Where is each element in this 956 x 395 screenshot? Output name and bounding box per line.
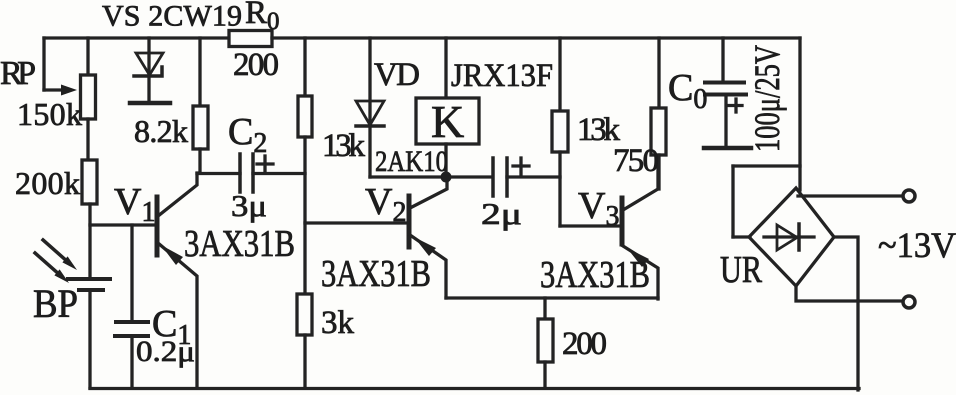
wire bridge bottom to terminal 2: [796, 286, 902, 301]
potentiometer RP wiper arrow: [44, 88, 63, 91]
capacitor C1: [130, 225, 133, 320]
svg-text:UR: UR: [720, 249, 763, 291]
svg-text:2μ: 2μ: [481, 196, 522, 231]
wire left edge drop to RP wiper: [42, 38, 45, 90]
wire top rail left segment: [44, 36, 229, 39]
svg-text:R0: R0: [245, 0, 280, 35]
terminal 1: [903, 190, 915, 202]
svg-text:3AX31B: 3AX31B: [321, 253, 431, 295]
transducer BP plates: [68, 277, 110, 281]
svg-text:3AX31B: 3AX31B: [184, 223, 295, 265]
wire bottom rail: [90, 387, 859, 390]
svg-text:C2: C2: [228, 111, 267, 159]
diode VD: [368, 38, 371, 124]
svg-text:K: K: [431, 96, 464, 147]
resistor 200 (bottom): [543, 298, 546, 319]
svg-text:BP: BP: [33, 281, 78, 326]
svg-text:V2: V2: [365, 181, 406, 228]
svg-text:C0: C0: [668, 67, 707, 115]
resistor 150k: [86, 38, 89, 75]
svg-text:200: 200: [233, 47, 279, 83]
resistor 3k: [297, 294, 312, 335]
svg-text:200k: 200k: [15, 165, 80, 201]
svg-text:V3: V3: [578, 185, 619, 232]
wire bridge upper-left link: [733, 164, 800, 167]
terminal 2: [903, 296, 915, 308]
BP incident arrows: [43, 240, 64, 259]
resistor 750: [657, 38, 660, 108]
capacitor C0: [721, 38, 724, 81]
svg-text:V1: V1: [114, 181, 155, 228]
wire V1 base horizontal: [90, 223, 157, 226]
svg-text:2AK10: 2AK10: [375, 145, 448, 178]
node junction: [441, 172, 452, 183]
svg-text:~13V: ~13V: [878, 225, 956, 265]
wire V3 base horizontal: [560, 224, 620, 227]
wire bridge right vertex down: [834, 237, 858, 390]
resistor 200k: [82, 160, 97, 204]
svg-text:8.2k: 8.2k: [134, 113, 188, 149]
svg-text:3k: 3k: [321, 305, 355, 341]
svg-text:150k: 150k: [17, 96, 82, 132]
resistor 13k (left): [303, 38, 306, 96]
svg-text:100μ/25V: 100μ/25V: [747, 45, 787, 152]
bridge rectifier UR: [749, 188, 834, 286]
wire V2 base horizontal: [305, 221, 407, 224]
svg-text:13k: 13k: [322, 128, 366, 164]
capacitor 2u: [451, 175, 491, 178]
svg-text:0.2μ: 0.2μ: [136, 335, 195, 368]
wire bridge top to terminal 1: [798, 194, 902, 197]
wire right corner vertical: [798, 38, 801, 190]
transistor V2: [407, 196, 412, 247]
svg-text:750: 750: [613, 143, 659, 179]
wire emitter rail V2-V3: [446, 296, 658, 299]
svg-text:VS 2CW19: VS 2CW19: [102, 0, 242, 33]
resistor 8.2k: [198, 38, 201, 106]
transistor V3: [620, 198, 625, 244]
svg-text:JRX13F: JRX13F: [451, 58, 553, 94]
svg-text:3AX31B: 3AX31B: [540, 254, 650, 296]
svg-text:VD: VD: [374, 57, 420, 93]
zener diode VS: [147, 38, 150, 75]
svg-text:RP: RP: [0, 55, 36, 92]
wire top rail right segment: [272, 36, 800, 39]
relay K: [444, 38, 447, 98]
capacitor C2: [197, 172, 240, 175]
resistor R0: [229, 31, 272, 47]
svg-text:3μ: 3μ: [231, 188, 267, 223]
svg-text:200: 200: [562, 326, 607, 362]
resistor 13k (right): [558, 38, 561, 111]
transistor V1: [155, 197, 160, 255]
